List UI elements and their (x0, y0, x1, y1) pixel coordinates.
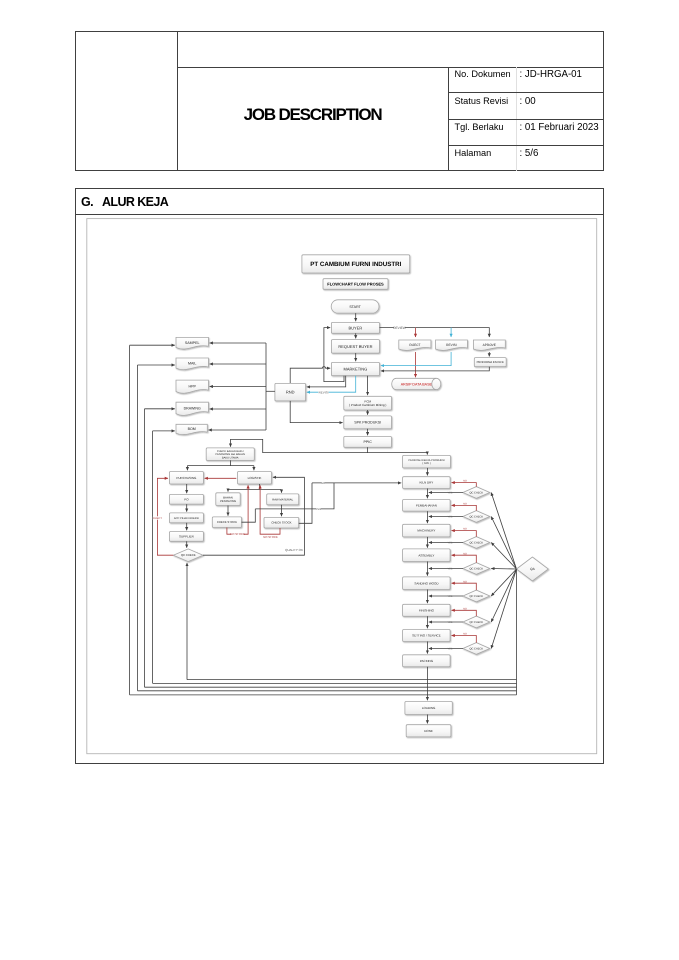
svg-text:SETTING / SERVICE: SETTING / SERVICE (412, 634, 441, 638)
wire CHECK STOCK left out (242, 509, 256, 522)
wire flow into FINISHING (426, 590, 428, 604)
wire CHECK STOCK right out (299, 483, 312, 523)
wire QC 4 yes merge (429, 568, 463, 570)
svg-text:LOGISTIK: LOGISTIK (248, 476, 262, 480)
section G header divider (75, 214, 604, 215)
svg-text:REQUEST BUYER: REQUEST BUYER (338, 344, 372, 349)
wire QC 7 no red (452, 636, 477, 643)
svg-text:NO: NO (463, 480, 467, 483)
process PPIC (344, 437, 392, 448)
wire trunk to DRAWING (210, 408, 266, 410)
svg-text:QC CHECK: QC CHECK (469, 541, 483, 544)
wire QC 2 no red (452, 505, 477, 510)
wire trunk to BOM (209, 429, 267, 431)
svg-text:FINISHING: FINISHING (419, 608, 435, 612)
svg-text:YES: YES (448, 491, 453, 494)
subtitle FLOWCHART FLOW PROSES (323, 279, 388, 290)
wire trunk vertical (265, 343, 267, 430)
wire RAW MATERIAL to CHECK STOCK (281, 505, 283, 516)
wire bottom loop to QC CHECK (187, 679, 517, 681)
wire QA fan 3 (491, 543, 516, 570)
wire review to REVISI cyan (450, 328, 452, 337)
wire MARKETING to RND (307, 376, 346, 387)
wire flow into SANDING WOOD (426, 562, 428, 576)
svg-text:PURCHASING: PURCHASING (176, 476, 197, 480)
flowchart inner frame (87, 219, 597, 754)
wire QA fan 6 (491, 569, 516, 622)
svg-text:QC CHECK: QC CHECK (469, 491, 483, 494)
svg-text:QC CHECK: QC CHECK (469, 595, 483, 598)
svg-text:( Product Cambium Mining ): ( Product Cambium Mining ) (349, 403, 386, 407)
section G title (81, 195, 93, 209)
wire SPK PRODUKSI to PPIC (367, 429, 369, 436)
title PT CAMBIUM FURNI INDUSTRI (302, 255, 410, 273)
wire loop vertical MAIL (137, 365, 139, 691)
header row Tgl. Berlaku (455, 122, 504, 132)
header row line 3 (448, 145, 604, 146)
wire BUYER review to APROVE (380, 328, 490, 337)
svg-text:START: START (349, 305, 361, 309)
storage ARSIP DATA BASE (392, 378, 441, 389)
svg-text:SUPPLIER: SUPPLIER (179, 534, 195, 538)
svg-text:PROFORMA INVOICE: PROFORMA INVOICE (477, 361, 504, 364)
svg-text:YES: YES (448, 541, 453, 544)
label QUALITY OK (285, 548, 303, 552)
wire loop into SAMPEL (130, 344, 175, 346)
wire trunk to HPP (210, 386, 266, 388)
document DRAWING (176, 402, 208, 415)
wire QC 3 no red (452, 531, 477, 537)
svg-text:APROVE: APROVE (483, 343, 496, 347)
svg-text:QC CHECK: QC CHECK (469, 515, 483, 518)
section G outer box (75, 188, 604, 764)
process SUPPLIER (169, 532, 203, 542)
process LOADING (405, 702, 452, 715)
wire loop vertical DRAWING (144, 409, 146, 687)
decision QC CHECK 6 (463, 616, 490, 628)
header row No. Dokumen (455, 69, 511, 79)
svg-text:QC CHECK: QC CHECK (469, 621, 483, 624)
wire QC 3 yes merge (429, 542, 463, 544)
process RAW MATERIAL (267, 494, 299, 505)
wire bottom loop MAIL (138, 690, 517, 692)
process BAHAN PENOLONG (216, 493, 240, 506)
wire APROVE to PROFORMA INVOICE (488, 352, 490, 357)
svg-text:RIJECT: RIJECT (409, 343, 420, 347)
svg-text:ACC PIHAK DIREKSI: ACC PIHAK DIREKSI (174, 517, 199, 520)
wire split to RAW MATERIAL (281, 490, 283, 493)
svg-text:BOM: BOM (188, 427, 196, 431)
svg-text:NO STOCK: NO STOCK (263, 535, 278, 539)
wire loop into MAIL (138, 364, 175, 366)
header vertical divider logo/title (177, 31, 178, 171)
wire review to RIJECT red (415, 328, 417, 337)
wire bus to KILN DRY (312, 482, 401, 484)
process FINISHING (403, 604, 451, 616)
svg-text:NO: NO (463, 633, 467, 636)
svg-text:SANDING WOOD: SANDING WOOD (414, 581, 439, 585)
wire QC 1 no red (452, 483, 477, 487)
wire QC 2 yes merge (429, 516, 463, 518)
decision QC CHECK left (173, 549, 203, 562)
svg-text:PT CAMBIUM FURNI INDUSTRI: PT CAMBIUM FURNI INDUSTRI (310, 261, 401, 268)
wire NO STOCK right red (260, 485, 280, 534)
process REQUEST BUYER (331, 340, 379, 354)
wire QC 6 no red (452, 610, 477, 616)
wire stock bus (255, 483, 334, 509)
wire QC 6 yes merge (429, 621, 463, 623)
label REVIEW (393, 326, 406, 330)
process LOGISTIK (238, 472, 272, 485)
process PACKING (403, 655, 451, 667)
process CHECK STOCK left (212, 517, 241, 528)
svg-text:YES: YES (316, 508, 321, 511)
svg-text:RIJECT: RIJECT (153, 517, 162, 520)
wire trunk to SAMPEL (210, 342, 266, 344)
svg-text:PEMBAHANAN: PEMBAHANAN (416, 503, 437, 507)
process SANDING WOOD (403, 577, 451, 590)
wire QA fan 1 (491, 493, 516, 570)
svg-text:LOADING: LOADING (422, 706, 436, 710)
wire QC 5 no red (452, 583, 477, 590)
process BUYER (331, 322, 379, 333)
wire PPIC split left to CHECK BAHAN BAKU (231, 439, 368, 452)
wire QC 5 yes merge (429, 595, 463, 597)
decision QA (517, 557, 549, 581)
process PERINTAH KERJA PRODUKSI (403, 455, 451, 468)
label NO STOCK left (230, 532, 245, 536)
wire PACKING to LOADING (426, 667, 428, 701)
header row line 1 (448, 92, 604, 93)
wire RIJECT to ARSIP DATA BASE red (415, 352, 417, 377)
process DONE (406, 725, 451, 737)
process MACHINERY (403, 524, 451, 537)
wire ACC to SUPPLIER (186, 523, 188, 531)
wire MARKETING to PCM (367, 376, 369, 395)
process CHECK BAHAN BAKU (206, 448, 254, 461)
process SPK PRODUKSI (344, 416, 392, 429)
header row line 2 (448, 119, 604, 120)
decision QC CHECK 3 (463, 537, 490, 549)
svg-text:MARKETING: MARKETING (344, 366, 368, 371)
process PURCHASING (169, 472, 203, 485)
wire RND to MARKETING with hop (290, 367, 330, 384)
svg-text:QC CHECK: QC CHECK (181, 553, 196, 557)
svg-text:NO: NO (321, 482, 325, 485)
wire split to BAHAN PENOLONG (227, 490, 229, 492)
decision QC CHECK 1 (463, 487, 490, 499)
svg-text:NO: NO (463, 528, 467, 531)
label REVISI on cyan wire (318, 390, 328, 394)
svg-text:HPP: HPP (189, 384, 197, 388)
wire QC 7 yes merge (429, 648, 463, 650)
wire loop vertical BOM (152, 431, 154, 684)
decision QC CHECK 5 (463, 590, 490, 602)
process ASSEMBLY (403, 549, 451, 562)
svg-text:YES: YES (448, 647, 453, 650)
svg-text:RND: RND (286, 390, 295, 395)
document APROVE (473, 340, 505, 350)
wire CHECK BAHAN BAKU split (230, 460, 232, 465)
wire MARKETING to BUYER loop (324, 328, 344, 382)
svg-text:MACHINERY: MACHINERY (417, 529, 435, 533)
svg-text:QC CHECK: QC CHECK (469, 647, 483, 650)
svg-text:NO: NO (463, 580, 467, 583)
svg-text:YES: YES (448, 515, 453, 518)
svg-text:RAW MATERIAL: RAW MATERIAL (272, 497, 293, 501)
wire QA fan 7 (491, 569, 516, 649)
svg-text:PENOLONG: PENOLONG (220, 499, 236, 503)
process RND (275, 383, 306, 401)
svg-text:YES: YES (448, 567, 453, 570)
svg-text:MAIL: MAIL (188, 362, 196, 366)
terminator START (331, 300, 379, 313)
wire bottom loop SAMPEL (130, 694, 517, 696)
header horizontal line under top-right cell (177, 67, 604, 68)
wire LOGISTIK split (259, 484, 261, 490)
wire bottom loop DRAWING (145, 686, 517, 688)
wire QC 4 no red (452, 555, 477, 562)
wire PURCHASING to PO (186, 484, 188, 493)
wire PCM to SPK PRODUKSI (367, 410, 369, 415)
document HPP (176, 380, 208, 393)
process KILN DRY (403, 477, 451, 489)
wire flow into PACKING (426, 642, 428, 654)
document RIJECT (399, 340, 431, 350)
wire LOGISTIK to PURCHASING red (205, 477, 237, 479)
svg-text:DRAWING: DRAWING (184, 406, 201, 410)
svg-text:QUALITY OK: QUALITY OK (285, 548, 303, 552)
process SETTING / SERVICE (403, 630, 451, 642)
wire loop into BOM (153, 430, 175, 432)
wire PROFORMA INVOICE to MARKETING (381, 367, 489, 371)
svg-text:CHECK STOCK: CHECK STOCK (217, 520, 237, 524)
wire RND to documents trunk (266, 390, 275, 392)
wire BAHAN PENOLONG to CHECK STOCK (227, 506, 229, 516)
title JOB DESCRIPTION (177, 105, 448, 125)
wire START to BUYER (355, 313, 357, 321)
svg-text:NO: NO (463, 552, 467, 555)
decision QC CHECK 4 (463, 563, 490, 575)
wire QA down (516, 569, 518, 695)
svg-text:REVISI: REVISI (446, 343, 457, 347)
svg-text:YES: YES (448, 621, 453, 624)
document REVISI (436, 340, 468, 350)
label on stock bus (316, 507, 321, 511)
wire LOADING to DONE (426, 715, 428, 724)
wire flow into ASSEMBLY (426, 537, 428, 548)
wire QA fan 4 (491, 568, 516, 571)
svg-text:ASSEMBLY: ASSEMBLY (418, 553, 434, 557)
svg-text:( SPK ): ( SPK ) (422, 462, 430, 465)
wire SUPPLIER to QC CHECK (186, 541, 188, 547)
decision QC CHECK 7 (463, 643, 490, 655)
svg-text:NO: NO (463, 502, 467, 505)
wire split to LOGISTIK (253, 466, 255, 471)
wire BUYER to REQUEST BUYER (355, 333, 357, 338)
wire QA fan 5 (491, 569, 516, 596)
header faint divider label/value (516, 67, 517, 171)
wire MARKETING to RND revisi cyan (307, 376, 356, 393)
svg-text:SAMPEL: SAMPEL (185, 341, 200, 345)
svg-text:SPK PRODUKSI: SPK PRODUKSI (354, 421, 381, 425)
process PROFORMA INVOICE (474, 358, 506, 367)
wire logistik split bar (228, 489, 282, 491)
svg-text:REVISI: REVISI (319, 390, 329, 394)
wire QUALITY OK to LOGISTIK (203, 477, 304, 555)
header row Halaman (455, 148, 492, 158)
wire QC 1 yes merge (429, 492, 463, 494)
svg-text:YES: YES (448, 595, 453, 598)
label on kiln feed (321, 481, 325, 485)
svg-text:CHECK STOCK: CHECK STOCK (271, 521, 291, 525)
svg-text:NO STOCK: NO STOCK (230, 532, 245, 536)
wire REVISI to MARKETING cyan (381, 352, 451, 366)
svg-text:FLOWCHART FLOW PROSES: FLOWCHART FLOW PROSES (327, 281, 384, 286)
svg-text:REVIEW: REVIEW (393, 326, 406, 330)
wire loop into DRAWING (145, 408, 175, 410)
wire loop vertical SAMPEL (129, 345, 131, 695)
document BOM (176, 424, 207, 434)
wire QA to QC CHECK bottom (186, 563, 188, 680)
svg-text:QC CHECK: QC CHECK (469, 567, 483, 570)
wire split to PURCHASING (186, 466, 188, 471)
process CHECK STOCK right (264, 517, 299, 528)
svg-text:PO: PO (184, 497, 189, 501)
process MARKETING (331, 362, 379, 375)
wire bottom loop BOM (153, 682, 517, 684)
svg-text:NO: NO (463, 607, 467, 610)
process PCM (344, 396, 392, 410)
wire flow into PEMBAHANAN (426, 489, 428, 499)
decision QC CHECK 2 (463, 511, 490, 523)
header table outer border (75, 31, 604, 171)
process ACC PIHAK DIREKSI (169, 513, 203, 523)
svg-text:BAKU UTAMA: BAKU UTAMA (222, 456, 239, 459)
wire QA fan 2 (491, 517, 516, 570)
wire flow into MACHINERY (426, 511, 428, 523)
header row Status Revisi (455, 96, 509, 106)
document MAIL (176, 358, 208, 370)
document SAMPEL (176, 337, 208, 349)
process PO (169, 494, 203, 504)
svg-text:PACKING: PACKING (420, 659, 434, 663)
wire REQUEST BUYER to MARKETING (355, 353, 357, 361)
svg-text:DONE: DONE (424, 729, 433, 733)
wire NO STOCK left red (227, 485, 248, 534)
wire PO to ACC PIHAK DIREKSI (186, 504, 188, 512)
label RIJECT (153, 516, 162, 520)
wire PPIC split right to PERINTAH (368, 453, 428, 455)
wire trunk to MAIL (210, 363, 266, 365)
wire flow into KILN DRY (426, 468, 428, 476)
wire RND to SPK PRODUKSI (290, 401, 342, 423)
wire split bar (187, 465, 254, 467)
svg-text:PPIC: PPIC (364, 440, 373, 444)
process PEMBAHANAN (403, 500, 451, 512)
wire QC CHECK riject red (157, 478, 173, 555)
header vertical divider title/info (448, 67, 449, 171)
wire flow into SETTING / SERVICE (426, 616, 428, 628)
svg-text:ARSIP DATA BASE: ARSIP DATA BASE (401, 382, 433, 386)
svg-text:KILN DRY: KILN DRY (420, 481, 434, 485)
svg-text:BUYER: BUYER (349, 325, 363, 330)
